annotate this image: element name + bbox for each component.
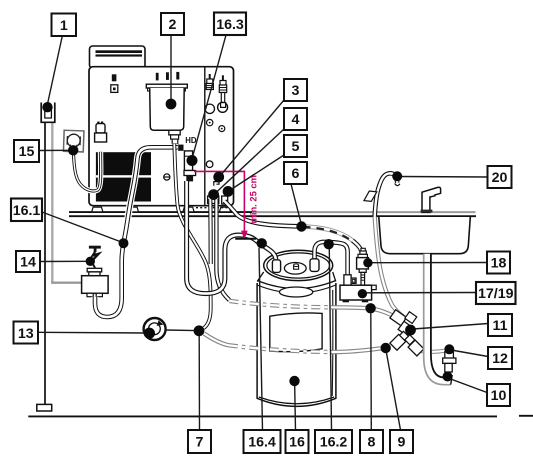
svg-text:11: 11 bbox=[492, 318, 507, 334]
leader line 6 bbox=[291, 184, 301, 223]
leader lines bbox=[38, 35, 488, 430]
label box 15 bbox=[14, 140, 39, 162]
dot 4 bbox=[208, 189, 219, 200]
drain hose fitting (items 12/10) bbox=[443, 352, 456, 372]
label box 3 bbox=[284, 79, 307, 101]
leader line 11 bbox=[413, 324, 488, 330]
leader line 2 bbox=[170, 35, 172, 101]
connector mark 3 bbox=[214, 182, 219, 186]
drain hose end over sink (item 20) bbox=[375, 173, 400, 216]
leader line 16 bbox=[294, 386, 297, 430]
dot 6 bbox=[296, 221, 306, 231]
label box 17/19 bbox=[476, 282, 516, 304]
container outlet fitting bbox=[169, 130, 180, 135]
dotted base strip bbox=[196, 207, 232, 209]
kitchen faucet bbox=[421, 187, 441, 212]
dot 16.4 bbox=[257, 238, 267, 248]
hose 16.2 tank to pump assembly bbox=[315, 242, 348, 275]
sink basin bbox=[379, 217, 471, 254]
hose 8 machine outlet bbox=[210, 199, 229, 300]
svg-text:6: 6 bbox=[292, 166, 300, 182]
leader line 17/19 bbox=[367, 292, 476, 294]
dot 5 bbox=[223, 186, 234, 197]
leader line 12 bbox=[454, 351, 488, 357]
svg-text:min. 25 cm: min. 25 cm bbox=[247, 175, 258, 223]
machine body outline bbox=[89, 67, 234, 206]
floor line bbox=[28, 415, 533, 418]
label box 18 bbox=[487, 252, 510, 274]
dot 1 bbox=[42, 102, 52, 112]
gray water pipe to filter bbox=[52, 281, 81, 282]
dot 10 bbox=[443, 372, 453, 382]
leader line 16.4 bbox=[259, 248, 263, 430]
dot 16 bbox=[289, 376, 299, 386]
dot 16.2 bbox=[324, 239, 334, 249]
dot 18 bbox=[363, 258, 372, 267]
svg-text:16.2: 16.2 bbox=[320, 434, 348, 450]
label box 20 bbox=[488, 166, 512, 188]
leader line 16.2 bbox=[329, 249, 331, 430]
leader line 16.3 bbox=[193, 35, 227, 157]
label box 10 bbox=[487, 384, 510, 406]
svg-text:13: 13 bbox=[18, 326, 34, 342]
connector line symbol-13 to hose 7 bbox=[166, 329, 197, 332]
rotatable coupling symbol (item 13) bbox=[144, 318, 166, 340]
hose holder clip on sink edge bbox=[364, 191, 377, 201]
svg-text:17/19: 17/19 bbox=[478, 286, 514, 302]
leader dots bbox=[42, 99, 454, 387]
hose 16.1 filter to HD valve bbox=[95, 147, 178, 317]
dot 2 bbox=[166, 99, 177, 110]
HD high-pressure valve (item 16.3) bbox=[178, 145, 195, 182]
leader line 1 bbox=[48, 35, 63, 104]
label box 7 bbox=[188, 430, 211, 453]
leader line 14 bbox=[40, 260, 87, 262]
dot 16.1 bbox=[119, 238, 129, 248]
wall socket with plug (item 15) bbox=[63, 130, 84, 152]
svg-text:5: 5 bbox=[292, 139, 300, 155]
svg-text:16.3: 16.3 bbox=[216, 17, 244, 33]
milk/water container (item 2) bbox=[146, 84, 187, 88]
label box 6 bbox=[284, 162, 307, 184]
leader line 7 bbox=[198, 336, 200, 430]
svg-text:9: 9 bbox=[398, 434, 406, 450]
machine feet bbox=[92, 207, 103, 212]
svg-text:16.4: 16.4 bbox=[248, 434, 276, 450]
power cable (plug to machine gland) bbox=[73, 152, 100, 191]
leader line 8 bbox=[370, 314, 373, 431]
hose 7 container drain bbox=[174, 144, 210, 328]
svg-text:7: 7 bbox=[196, 434, 204, 450]
water filter with shut-off valve (item 14) bbox=[82, 246, 109, 297]
storage tank (item 16) bbox=[257, 250, 336, 406]
svg-text:18: 18 bbox=[491, 255, 507, 271]
leader line 15 bbox=[39, 149, 70, 151]
hose 6 machine to solenoid valve 18 bbox=[224, 201, 361, 252]
hose stems under machine right bbox=[208, 196, 219, 204]
hose 8 dashed section behind tank bbox=[230, 301, 332, 307]
leader line 13 bbox=[38, 331, 146, 334]
leader line 5 bbox=[230, 155, 285, 191]
dot 11 bbox=[405, 325, 416, 336]
right panel connector A bbox=[209, 74, 211, 79]
label box 2 bbox=[161, 13, 184, 35]
cable gland bbox=[97, 122, 99, 125]
svg-text:1: 1 bbox=[60, 18, 68, 34]
three tick marks bbox=[156, 73, 159, 81]
leader line 10 bbox=[452, 380, 487, 393]
pole base foot bbox=[37, 404, 52, 411]
leader line 16.1 bbox=[42, 212, 120, 242]
label box 5 bbox=[284, 135, 307, 157]
small rings / screws right panel bbox=[207, 119, 213, 125]
socket holder fixture (item 1) bbox=[41, 103, 55, 123]
svg-text:4: 4 bbox=[292, 112, 300, 128]
sink drain hose under counter (gray) bbox=[375, 217, 403, 317]
dot 3 bbox=[213, 172, 224, 183]
small icons top-left bbox=[112, 74, 117, 81]
dot 17/19 bbox=[358, 289, 367, 298]
label box 1 bbox=[52, 14, 77, 37]
screw on back panel bbox=[164, 174, 170, 180]
vent block bbox=[96, 152, 151, 201]
svg-text:HD: HD bbox=[185, 136, 197, 145]
dot 13 bbox=[144, 328, 155, 339]
pump assembly (items 17/19) bbox=[340, 275, 376, 303]
dot 20 bbox=[392, 171, 402, 181]
dot 15 bbox=[68, 145, 78, 155]
machine top tray bbox=[90, 46, 146, 68]
leader line 20 bbox=[400, 176, 488, 179]
drain T-piece (item 11) bbox=[390, 310, 424, 356]
dot 7 bbox=[194, 325, 205, 336]
right panel connector B bbox=[222, 75, 224, 80]
leader line 4 bbox=[215, 129, 284, 194]
svg-text:20: 20 bbox=[492, 170, 508, 186]
label box 11 bbox=[488, 314, 512, 336]
leader line 18 bbox=[372, 262, 487, 264]
label box 8 bbox=[360, 430, 383, 453]
svg-text:3: 3 bbox=[292, 83, 300, 99]
label box 12 bbox=[488, 347, 512, 369]
hose 16.4 HD valve to tank bbox=[187, 181, 276, 294]
label box 9 bbox=[390, 430, 413, 453]
svg-text:16: 16 bbox=[289, 434, 305, 450]
leader line 3 bbox=[220, 100, 284, 176]
label box 4 bbox=[284, 108, 307, 130]
svg-text:10: 10 bbox=[491, 388, 507, 404]
tank lid fittings bbox=[272, 260, 280, 273]
hose 9 dashed section behind tank (from coupling 13 to T-piece) bbox=[204, 334, 229, 346]
label box 16.3 bbox=[214, 13, 246, 36]
coffee machine rear view bbox=[89, 46, 234, 212]
label box 16 bbox=[286, 430, 309, 453]
label box 16.1 bbox=[11, 199, 42, 222]
label box 16.4 bbox=[244, 430, 281, 453]
counter top (left+sink) bbox=[69, 212, 476, 216]
dot 14 bbox=[86, 257, 95, 266]
label box 16.2 bbox=[315, 430, 352, 453]
solenoid valve (item 18) bbox=[357, 248, 369, 285]
dot 12 bbox=[444, 344, 454, 354]
dimension annotation min. 25 cm bbox=[194, 171, 259, 240]
svg-text:12: 12 bbox=[492, 351, 508, 367]
sink standpipe with bend bbox=[424, 254, 453, 385]
label box 14 bbox=[16, 251, 40, 272]
svg-text:16.1: 16.1 bbox=[13, 203, 41, 219]
svg-text:15: 15 bbox=[19, 144, 35, 160]
power column pole bbox=[45, 122, 52, 404]
dot 8 bbox=[365, 303, 375, 313]
short hose T-piece to fitting 12 bbox=[419, 351, 444, 352]
leader line 9 bbox=[387, 353, 401, 430]
dot 9 bbox=[381, 343, 391, 353]
label box 13 bbox=[14, 322, 39, 344]
svg-text:14: 14 bbox=[20, 254, 36, 270]
svg-text:2: 2 bbox=[169, 17, 177, 33]
dot 16.3 bbox=[187, 155, 198, 166]
svg-text:8: 8 bbox=[368, 434, 376, 450]
panel divider bbox=[204, 67, 206, 206]
